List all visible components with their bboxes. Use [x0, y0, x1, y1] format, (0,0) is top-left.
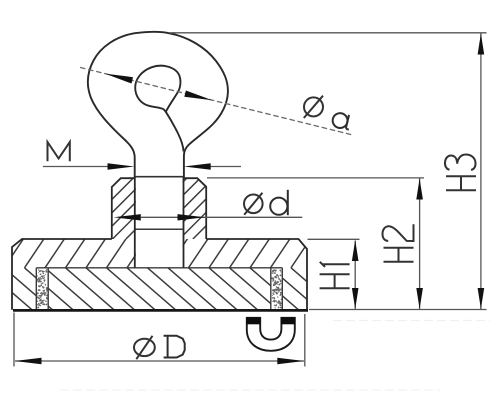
- shared bottom extension line: [309, 309, 487, 311]
- H1 dimension: [308, 238, 360, 240]
- magnet strip speckle right: [271, 269, 282, 308]
- threaded boss hatch: [46, 178, 268, 239]
- H2 dimension: [207, 177, 424, 179]
- eyebolt outer profile: [88, 32, 228, 178]
- white of right magnet strip: [271, 268, 282, 309]
- magnet strip speckle left: [36, 269, 47, 308]
- Oa arrow left: [105, 74, 133, 84]
- magnet strip border lines: [36, 268, 282, 310]
- hole / shank side lines: [135, 177, 184, 268]
- base outline: [12, 239, 307, 310]
- dimension OD bottom: [13, 313, 15, 367]
- white of center hole through boss and base: [136, 177, 183, 267]
- horseshoe magnet symbol: [247, 318, 295, 351]
- stud end line inside hole: [135, 228, 183, 230]
- keyhole tail to neck: [166, 112, 184, 152]
- threaded boss outline: [112, 178, 206, 239]
- stud shoulder line across hole: [135, 176, 184, 178]
- dimension M: [48, 142, 70, 161]
- dimension Oa diagonal line: [80, 67, 352, 134]
- H3 dimension: [170, 32, 487, 34]
- white of left magnet strip: [37, 268, 48, 309]
- base pot cross-hatch: [0, 239, 360, 310]
- Oa label: [304, 96, 323, 118]
- base bottom edge: [13, 309, 308, 312]
- faint scan artifacts: [333, 320, 490, 322]
- internal pot line: [36, 267, 282, 269]
- Oa arrow right: [184, 91, 212, 101]
- dimension Od: [141, 216, 302, 218]
- eyelet inner hole (keyhole): [135, 66, 180, 112]
